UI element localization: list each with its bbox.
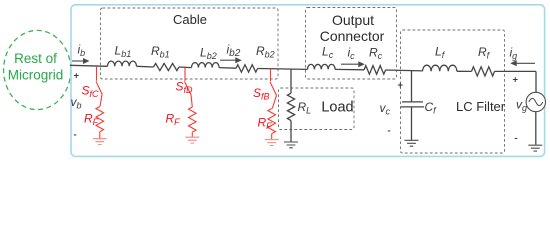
wire: corner down to source v_g (535, 71, 537, 92)
wire: L_c to R_c (335, 68, 364, 70)
current arrow i_c (341, 61, 365, 67)
wire: L_b2 to R_b2 (219, 67, 236, 70)
svg-text:Microgrid: Microgrid (8, 67, 64, 82)
wire: capacitor branch drop (411, 71, 413, 102)
wire: R_L to ground (290, 121, 292, 142)
svg-text:SfB: SfB (253, 86, 270, 102)
wire: R_c past node C to L_f (386, 69, 423, 72)
ground (load) (284, 142, 298, 148)
wire: L_b1 to R_b1 (137, 65, 154, 68)
fault branch 2: switch S_fD (185, 68, 197, 137)
inductor L_c (308, 64, 336, 69)
inductor L_f (423, 65, 457, 71)
svg-text:vg: vg (516, 98, 527, 114)
svg-text:Lc: Lc (322, 45, 334, 61)
svg-text:ib2: ib2 (227, 43, 241, 60)
resistor R_F (2) (189, 107, 197, 132)
LC Filter dashed box (401, 30, 505, 153)
svg-text:Output: Output (332, 12, 374, 28)
svg-text:+: + (74, 71, 80, 82)
ground (R_F 3, red) (265, 140, 279, 146)
svg-text:SfC: SfC (82, 84, 100, 100)
wire: source to ground (535, 112, 537, 145)
svg-text:Lb2: Lb2 (200, 46, 217, 62)
Cable dashed box (101, 8, 279, 79)
svg-text:Rb2: Rb2 (256, 44, 275, 60)
svg-text:Cable: Cable (173, 12, 207, 27)
svg-text:ig: ig (510, 46, 518, 62)
wire: C_f to ground (411, 107, 413, 140)
wire: L_f to R_f (457, 70, 472, 72)
ground (v_g) (528, 145, 542, 151)
wire: R_b1 to L_b2 (179, 66, 192, 69)
svg-text:+: + (513, 75, 519, 86)
svg-text:Rb1: Rb1 (151, 44, 170, 60)
ground (R_F 2, red) (185, 137, 199, 143)
svg-text:Lb1: Lb1 (115, 44, 132, 60)
resistor R_b2 (236, 65, 258, 72)
svg-text:-: - (388, 126, 391, 137)
svg-text:vc: vc (380, 101, 391, 117)
svg-text:-: - (74, 130, 77, 141)
outer light-blue rounded frame (71, 5, 545, 157)
svg-text:Cf: Cf (425, 100, 438, 116)
wire: R_f to right corner (495, 70, 537, 72)
resistor R_f (472, 67, 495, 76)
resistor R_c (364, 66, 386, 75)
current arrow i_g (points left) (510, 60, 535, 66)
resistor R_b1 (154, 63, 179, 70)
inductor L_b1 (108, 61, 137, 66)
Output Connector dashed box (306, 8, 397, 80)
Rest of Microgrid source (green dashed ellipse) (4, 30, 71, 109)
svg-text:-: - (515, 133, 518, 144)
svg-text:RF: RF (84, 112, 99, 128)
ac source v_g (526, 92, 545, 111)
svg-text:ic: ic (348, 46, 356, 62)
svg-text:LC Filter: LC Filter (456, 99, 506, 114)
Load dashed box (279, 88, 355, 130)
svg-text:Rf: Rf (478, 45, 491, 61)
svg-text:RF: RF (166, 112, 181, 128)
svg-text:ib: ib (78, 43, 86, 59)
fault branch 1: switch S_fC (96, 66, 104, 139)
svg-text:Rc: Rc (369, 46, 383, 62)
wire: load branch drop (290, 69, 292, 93)
resistor R_F (1) (96, 107, 104, 132)
svg-text:vb: vb (71, 95, 82, 111)
svg-text:RL: RL (298, 100, 312, 116)
svg-text:Lf: Lf (435, 45, 446, 61)
svg-text:Load: Load (321, 100, 353, 116)
capacitor C_f plates (401, 102, 425, 107)
wire: microgrid to L_b1 (70, 65, 108, 66)
ground (C_f) (405, 140, 419, 146)
resistor R_L (load) (287, 93, 294, 120)
svg-text:+: + (398, 80, 404, 91)
svg-text:Rest of: Rest of (14, 51, 57, 66)
current arrow i_b (72, 58, 90, 64)
resistor R_F (3) (268, 109, 276, 134)
svg-text:Connector: Connector (320, 28, 385, 44)
current arrow i_b2 (220, 57, 242, 63)
fault branch 3: switch S_fB (268, 69, 277, 140)
ground (R_F 1, red) (93, 139, 107, 145)
inductor L_b2 (192, 63, 220, 68)
wire: R_b2 past node B to L_c (258, 68, 308, 71)
